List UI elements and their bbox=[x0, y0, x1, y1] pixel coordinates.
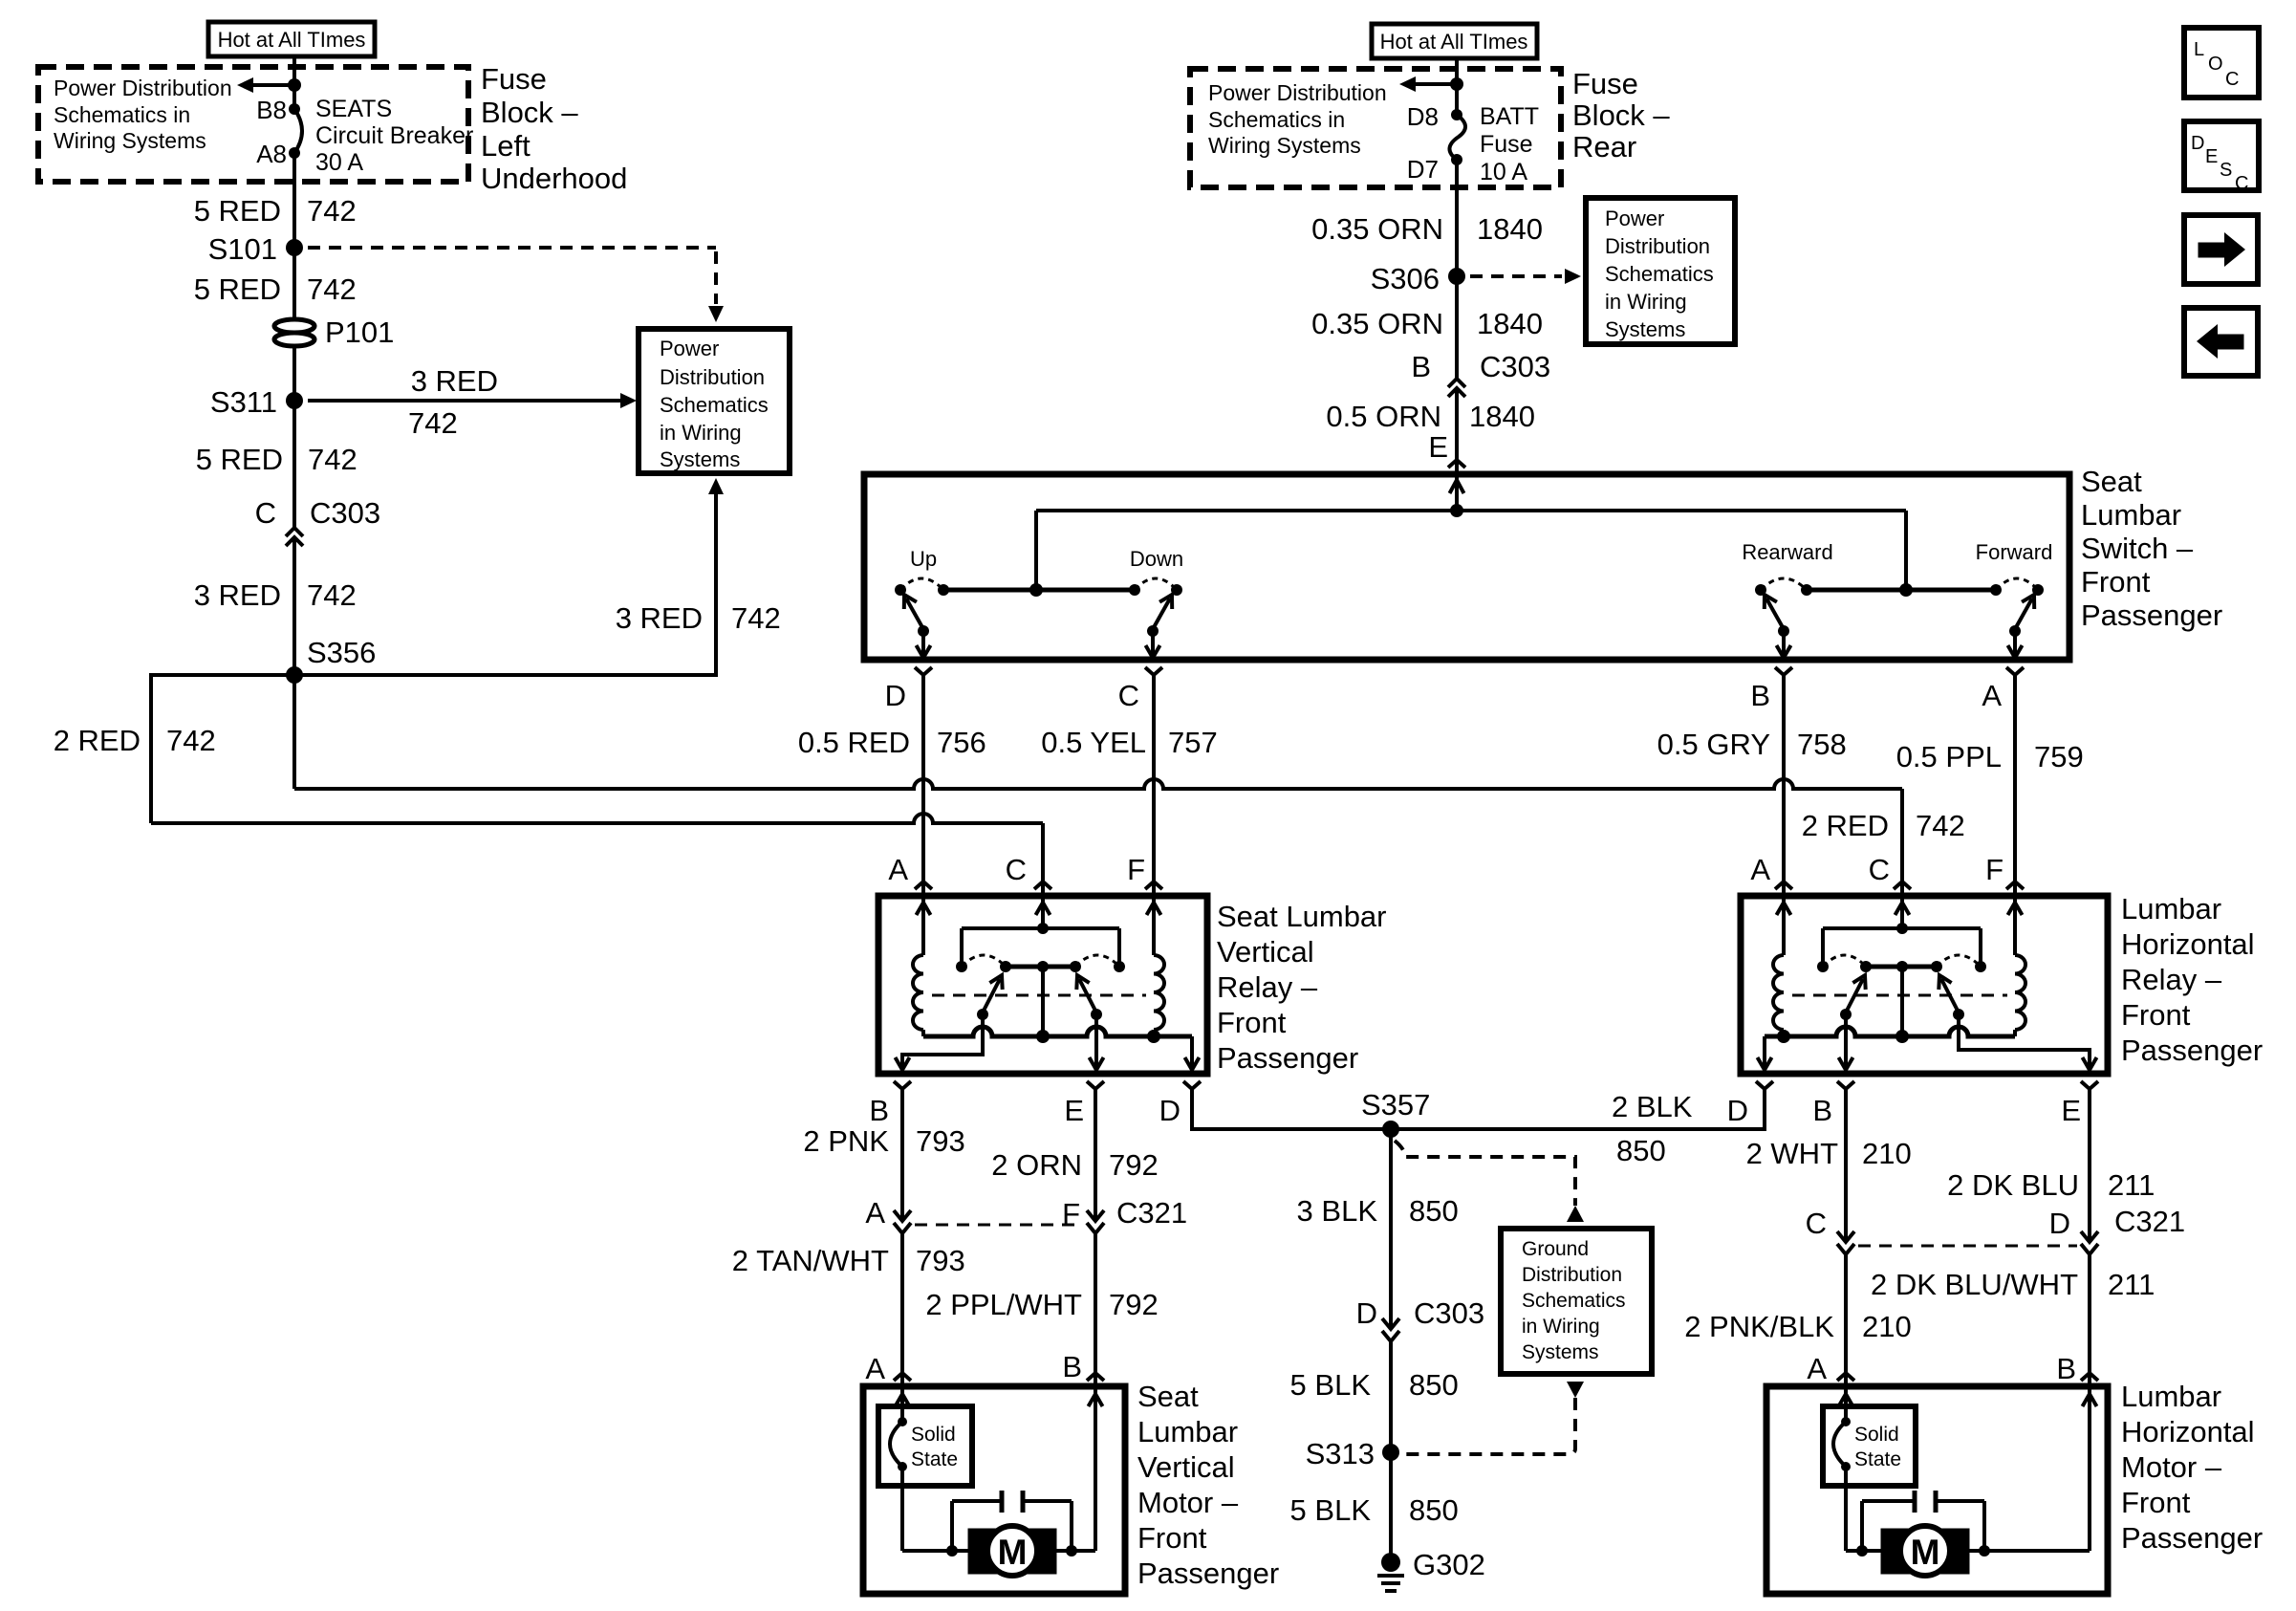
relay pin A (right) bbox=[1775, 882, 1792, 889]
wire 0.5 RED 756 bbox=[921, 675, 925, 881]
dashed reference from S306 to power distribution box bbox=[1470, 274, 1562, 278]
svg-text:742: 742 bbox=[307, 272, 357, 306]
dashed reference S357 to ground distribution box bbox=[1395, 1141, 1575, 1206]
svg-text:5 RED: 5 RED bbox=[194, 194, 281, 228]
svg-text:793: 793 bbox=[916, 1124, 965, 1158]
svg-text:E: E bbox=[1064, 1094, 1084, 1127]
wire 2 WHT 210 (relay B to C321) bbox=[1844, 1089, 1848, 1242]
svg-text:Distribution: Distribution bbox=[1605, 234, 1710, 258]
wire 5 RED 742 (fuse block to S101) bbox=[292, 153, 296, 248]
svg-text:S: S bbox=[2220, 160, 2232, 181]
svg-text:Wiring Systems: Wiring Systems bbox=[1208, 133, 1361, 158]
svg-text:742: 742 bbox=[307, 578, 357, 612]
svg-text:Systems: Systems bbox=[660, 447, 740, 471]
svg-text:742: 742 bbox=[731, 601, 781, 635]
left arrow box bbox=[2184, 308, 2258, 376]
svg-text:Front: Front bbox=[1217, 1006, 1287, 1039]
forward contact and travel arc bbox=[2032, 584, 2044, 596]
svg-text:E: E bbox=[2205, 146, 2218, 167]
wire 0.35 ORN 1840 (fuse to S306) bbox=[1455, 160, 1459, 276]
wire: feed bus to right relay coil C (with hops) bbox=[294, 779, 1902, 789]
svg-text:Passenger: Passenger bbox=[1137, 1557, 1279, 1590]
wire 3 RED 742 (C303 to S356) bbox=[292, 537, 296, 675]
svg-text:5 BLK: 5 BLK bbox=[1290, 1493, 1372, 1527]
relay common feed C bbox=[1041, 896, 1045, 928]
switch pin C bbox=[1145, 667, 1162, 675]
wire: S356 down to feed bus bbox=[292, 675, 296, 789]
svg-text:O: O bbox=[2208, 54, 2223, 75]
svg-text:Forward: Forward bbox=[1976, 540, 2053, 564]
svg-text:Passenger: Passenger bbox=[2081, 599, 2222, 632]
solid state box (right) bbox=[1823, 1406, 1916, 1486]
wire 3 RED 742 (S356 up to power distribution box) bbox=[294, 494, 716, 675]
relay output to pin E (right) bbox=[1959, 1014, 2090, 1071]
circuit breaker SEATS 30 A bbox=[294, 109, 302, 153]
svg-text:2 RED: 2 RED bbox=[1802, 809, 1889, 842]
relay pin C (right) bbox=[1894, 882, 1911, 889]
svg-text:C: C bbox=[1118, 679, 1139, 712]
fuse BATT 10 A bbox=[1449, 115, 1465, 160]
wire 2 DK BLU/WHT 211 (C321 to motor B) bbox=[2088, 1254, 2091, 1373]
svg-text:0.5 RED: 0.5 RED bbox=[798, 726, 910, 759]
svg-text:S311: S311 bbox=[210, 385, 277, 419]
svg-text:E: E bbox=[1428, 430, 1448, 464]
svg-text:2 DK BLU: 2 DK BLU bbox=[1947, 1168, 2079, 1202]
motor M (right) bbox=[1881, 1529, 1914, 1574]
svg-text:C321: C321 bbox=[1116, 1196, 1187, 1230]
svg-text:793: 793 bbox=[916, 1244, 965, 1277]
svg-text:742: 742 bbox=[166, 724, 216, 757]
svg-text:Front: Front bbox=[2121, 1486, 2191, 1519]
svg-text:Wiring Systems: Wiring Systems bbox=[54, 128, 206, 153]
relay armature dashed linkage (right) bbox=[1792, 994, 2007, 997]
down movable contact arm bbox=[1153, 599, 1170, 629]
svg-text:3 RED: 3 RED bbox=[194, 578, 281, 612]
wire: 2 RED bus to left relay coil C (with hop) bbox=[151, 814, 1043, 823]
svg-text:C: C bbox=[1869, 853, 1890, 886]
svg-text:Power: Power bbox=[1605, 207, 1664, 230]
svg-text:210: 210 bbox=[1862, 1310, 1912, 1343]
svg-text:D: D bbox=[1356, 1296, 1377, 1330]
relay output to pin D bbox=[1190, 1036, 1194, 1070]
svg-text:G302: G302 bbox=[1413, 1548, 1485, 1581]
relay pin B bbox=[894, 1081, 911, 1089]
svg-text:Passenger: Passenger bbox=[2121, 1034, 2263, 1067]
svg-text:Front: Front bbox=[2121, 998, 2191, 1032]
svg-text:Power: Power bbox=[660, 337, 719, 360]
svg-text:Switch –: Switch – bbox=[2081, 532, 2194, 565]
svg-text:850: 850 bbox=[1409, 1493, 1459, 1527]
suppression capacitor (right motor) bbox=[1856, 1545, 1868, 1557]
seat lumbar vertical relay box bbox=[878, 896, 1207, 1074]
svg-text:Seat Lumbar: Seat Lumbar bbox=[1217, 900, 1387, 933]
pin D8 bbox=[1451, 109, 1462, 120]
wire 0.5 PPL 759 bbox=[2013, 675, 2017, 881]
wire 5 RED 742 (S311 to C303) bbox=[292, 401, 296, 528]
svg-text:792: 792 bbox=[1109, 1288, 1159, 1321]
svg-text:A: A bbox=[1807, 1352, 1827, 1385]
svg-text:C: C bbox=[1806, 1207, 1827, 1240]
relay armature contacts (right) bbox=[1840, 1009, 1852, 1020]
wire 0.5 ORN 1840 (C303 to switch pin E) bbox=[1455, 388, 1459, 460]
relay movable contact bar (right) bbox=[1866, 965, 1937, 969]
svg-text:2 ORN: 2 ORN bbox=[991, 1148, 1082, 1182]
wire 0.5 YEL 757 bbox=[1152, 675, 1156, 881]
solid state box bbox=[878, 1406, 972, 1486]
relay pin A bbox=[915, 882, 932, 889]
svg-text:5 BLK: 5 BLK bbox=[1290, 1368, 1372, 1402]
wire: hot feed into rear fuse block bbox=[1455, 58, 1459, 115]
svg-text:Fuse: Fuse bbox=[481, 62, 547, 96]
wire 5 BLK 850 (C303 to S313) bbox=[1389, 1341, 1393, 1452]
wire 3 BLK 850 (S357 to C303) bbox=[1389, 1129, 1393, 1329]
svg-text:Lumbar: Lumbar bbox=[1137, 1415, 1238, 1448]
svg-text:Solid: Solid bbox=[1854, 1424, 1899, 1446]
svg-text:C303: C303 bbox=[1414, 1296, 1484, 1330]
splice S311 bbox=[286, 392, 303, 409]
svg-text:Lumbar: Lumbar bbox=[2121, 892, 2221, 925]
svg-text:S356: S356 bbox=[307, 636, 376, 669]
svg-text:E: E bbox=[2061, 1094, 2081, 1127]
motor feed A with solid state protector bbox=[900, 1386, 904, 1422]
splice S313 bbox=[1382, 1444, 1399, 1461]
fuse block left underhood (dashed box) bbox=[38, 67, 468, 182]
svg-text:Lumbar: Lumbar bbox=[2121, 1380, 2221, 1413]
svg-text:C: C bbox=[255, 496, 276, 530]
svg-text:Power Distribution: Power Distribution bbox=[54, 76, 232, 100]
suppression capacitor (left motor) bbox=[946, 1545, 958, 1557]
splice S306 bbox=[1448, 268, 1465, 285]
relay fixed contacts bbox=[956, 961, 967, 972]
svg-text:Horizontal: Horizontal bbox=[2121, 1415, 2255, 1448]
fuse block rear (dashed box) bbox=[1190, 69, 1561, 187]
svg-text:D: D bbox=[1159, 1094, 1180, 1127]
motor brush feed (left) bbox=[900, 1467, 904, 1551]
up movable contact arm bbox=[906, 599, 923, 629]
switch contact row (up/down) bbox=[943, 588, 1135, 593]
svg-text:L: L bbox=[2194, 39, 2204, 60]
motor return B (left) bbox=[1056, 1549, 1095, 1553]
svg-text:Vertical: Vertical bbox=[1217, 935, 1314, 969]
svg-text:Motor –: Motor – bbox=[1137, 1486, 1239, 1519]
svg-text:Schematics: Schematics bbox=[660, 393, 769, 417]
rearward contact and travel arc bbox=[1755, 584, 1766, 596]
svg-text:3 RED: 3 RED bbox=[616, 601, 703, 635]
svg-text:850: 850 bbox=[1409, 1368, 1459, 1402]
svg-text:S313: S313 bbox=[1306, 1437, 1375, 1470]
svg-text:211: 211 bbox=[2108, 1168, 2155, 1202]
relay pin D bbox=[1183, 1081, 1201, 1089]
svg-text:in Wiring: in Wiring bbox=[1605, 290, 1687, 314]
svg-text:Seat: Seat bbox=[2081, 465, 2142, 498]
dashed reference from S101 to power distribution box bbox=[308, 246, 716, 250]
svg-text:Horizontal: Horizontal bbox=[2121, 927, 2255, 961]
lumbar horizontal relay box bbox=[1741, 896, 2108, 1074]
switch pin D bbox=[915, 667, 932, 675]
svg-text:F: F bbox=[1985, 853, 2004, 886]
svg-text:0.5 GRY: 0.5 GRY bbox=[1657, 728, 1770, 761]
solid state element (right) bbox=[1841, 1417, 1851, 1426]
relay movable contact bar bbox=[1006, 965, 1075, 969]
wire 2 BLK 850 (relay D pins to S357) bbox=[1192, 1089, 1765, 1129]
svg-text:Lumbar: Lumbar bbox=[2081, 498, 2181, 532]
svg-text:1840: 1840 bbox=[1469, 400, 1535, 433]
svg-text:0.35 ORN: 0.35 ORN bbox=[1311, 212, 1443, 246]
svg-text:Hot at All TImes: Hot at All TImes bbox=[1380, 30, 1528, 54]
reference box Power Distribution Schematics in Wiring Systems (left) bbox=[639, 329, 790, 473]
seat lumbar vertical motor box bbox=[863, 1386, 1125, 1594]
svg-text:Hot at All TImes: Hot at All TImes bbox=[218, 28, 366, 52]
wire 5 RED 742 (S101 to P101) bbox=[292, 248, 296, 320]
svg-text:2 PNK: 2 PNK bbox=[803, 1124, 889, 1158]
relay bottom bus (right, with hops) bbox=[1765, 1027, 2015, 1036]
wire 2 PNK 793 (relay B to C321) bbox=[900, 1089, 904, 1221]
arrow to power distribution (left) bbox=[252, 83, 294, 87]
relay armature contacts bbox=[977, 1009, 988, 1020]
relay pin C bbox=[1034, 882, 1051, 889]
svg-text:P101: P101 bbox=[325, 316, 394, 349]
svg-text:Rear: Rear bbox=[1572, 130, 1636, 163]
svg-text:0.5 YEL: 0.5 YEL bbox=[1041, 726, 1146, 759]
svg-text:Block –: Block – bbox=[481, 96, 578, 129]
svg-text:C: C bbox=[2225, 69, 2239, 90]
svg-text:850: 850 bbox=[1616, 1134, 1666, 1167]
svg-text:Relay –: Relay – bbox=[1217, 970, 1318, 1004]
ground distribution box bbox=[1501, 1229, 1652, 1374]
wire 3 RED 742 branch from S311 to power distribution box bbox=[308, 399, 621, 403]
svg-text:M: M bbox=[1911, 1533, 1940, 1572]
svg-text:2 TAN/WHT: 2 TAN/WHT bbox=[732, 1244, 889, 1277]
svg-text:A: A bbox=[865, 1352, 885, 1385]
svg-text:Seat: Seat bbox=[1137, 1380, 1199, 1413]
svg-text:A: A bbox=[1982, 679, 2002, 712]
relay coil (right, F winding) bbox=[2013, 896, 2017, 955]
svg-text:10 A: 10 A bbox=[1480, 159, 1527, 185]
svg-text:Fuse: Fuse bbox=[1480, 131, 1533, 158]
switch contact row (rearward/forward) bbox=[1807, 588, 1996, 593]
motor return B (right) bbox=[1969, 1549, 2090, 1553]
svg-text:5 RED: 5 RED bbox=[196, 443, 283, 476]
svg-text:Circuit Breaker: Circuit Breaker bbox=[315, 122, 473, 149]
relay output to pin B (right) bbox=[1844, 1014, 1848, 1070]
motor brush feed (right) bbox=[1844, 1467, 1848, 1551]
svg-text:A8: A8 bbox=[256, 140, 287, 168]
svg-text:0.5 PPL: 0.5 PPL bbox=[1896, 740, 2002, 773]
wire 2 RED 742 (S356 left branch) bbox=[151, 675, 294, 823]
svg-text:210: 210 bbox=[1862, 1137, 1912, 1170]
svg-text:C: C bbox=[1006, 853, 1027, 886]
splice S357 bbox=[1382, 1121, 1399, 1138]
wire (P101 to S311) bbox=[292, 345, 296, 401]
svg-text:C: C bbox=[2235, 173, 2248, 194]
reference box Power Distribution Schematics in Wiring Systems (right) bbox=[1586, 198, 1735, 344]
relay armature dashed linkage bbox=[932, 994, 1146, 997]
pin A8 bbox=[289, 147, 300, 159]
svg-text:Distribution: Distribution bbox=[1522, 1264, 1622, 1286]
relay pin F bbox=[1145, 882, 1162, 889]
svg-text:742: 742 bbox=[307, 194, 357, 228]
label Hot at All Times (right) bbox=[1372, 24, 1537, 58]
svg-text:B: B bbox=[869, 1094, 889, 1127]
svg-text:A: A bbox=[888, 853, 908, 886]
svg-text:S101: S101 bbox=[208, 232, 277, 266]
forward movable contact arm bbox=[2015, 599, 2032, 629]
svg-text:792: 792 bbox=[1109, 1148, 1159, 1182]
svg-text:0.35 ORN: 0.35 ORN bbox=[1311, 307, 1443, 340]
svg-text:B: B bbox=[1062, 1350, 1082, 1383]
relay output to pin D (right) bbox=[1763, 1036, 1766, 1070]
svg-text:Distribution: Distribution bbox=[660, 365, 765, 389]
wire 2 TAN/WHT 793 (C321 to motor A) bbox=[900, 1233, 904, 1373]
svg-text:S306: S306 bbox=[1371, 262, 1440, 295]
splice S356 bbox=[286, 666, 303, 684]
svg-text:D: D bbox=[1727, 1094, 1748, 1127]
LOC box bbox=[2184, 28, 2259, 98]
svg-text:Schematics: Schematics bbox=[1605, 262, 1714, 286]
down contact and travel arc bbox=[1171, 584, 1182, 596]
svg-text:A: A bbox=[865, 1196, 885, 1230]
relay pin D (right) bbox=[1756, 1081, 1773, 1089]
svg-text:D: D bbox=[2191, 133, 2204, 154]
svg-text:Motor –: Motor – bbox=[2121, 1450, 2222, 1484]
svg-text:B: B bbox=[2056, 1352, 2076, 1385]
svg-text:Front: Front bbox=[1137, 1521, 1207, 1555]
svg-text:B: B bbox=[1411, 350, 1431, 383]
wire 5 BLK 850 (S313 to G302) bbox=[1389, 1452, 1393, 1562]
solid state element bbox=[898, 1417, 907, 1426]
svg-text:Relay –: Relay – bbox=[2121, 963, 2222, 996]
svg-text:Power Distribution: Power Distribution bbox=[1208, 80, 1387, 105]
motor M (left) bbox=[968, 1529, 1001, 1574]
relay coil (up winding) bbox=[921, 896, 925, 955]
svg-text:1840: 1840 bbox=[1477, 212, 1543, 246]
svg-text:Fuse: Fuse bbox=[1572, 67, 1638, 100]
svg-text:Passenger: Passenger bbox=[1217, 1041, 1358, 1075]
relay pin E (right) bbox=[2081, 1081, 2098, 1089]
relay output to pin E bbox=[1094, 1014, 1098, 1070]
svg-text:BATT: BATT bbox=[1480, 103, 1539, 130]
svg-text:in Wiring: in Wiring bbox=[1522, 1316, 1600, 1338]
svg-text:D8: D8 bbox=[1407, 102, 1439, 131]
wire: hot feed into fuse block bbox=[292, 56, 296, 109]
relay pin F (right) bbox=[2006, 882, 2024, 889]
ground G302 bbox=[1381, 1553, 1400, 1572]
svg-text:30 A: 30 A bbox=[315, 149, 363, 176]
arrow to power distribution (right) bbox=[1415, 82, 1457, 86]
label Hot at All Times (left) bbox=[208, 22, 375, 56]
relay fixed contacts (right) bbox=[1817, 961, 1829, 972]
svg-text:B8: B8 bbox=[256, 96, 287, 124]
wire: switch internal feed bus bbox=[1036, 509, 1906, 512]
svg-text:Passenger: Passenger bbox=[2121, 1521, 2263, 1555]
svg-text:D: D bbox=[885, 679, 906, 712]
svg-text:1840: 1840 bbox=[1477, 307, 1543, 340]
svg-text:State: State bbox=[1854, 1448, 1901, 1470]
splice S101 bbox=[286, 239, 303, 256]
svg-text:742: 742 bbox=[308, 443, 357, 476]
svg-text:in Wiring: in Wiring bbox=[660, 421, 742, 445]
relay common feed C (right) bbox=[1900, 896, 1904, 928]
pin D7 bbox=[1451, 154, 1462, 165]
svg-text:Front: Front bbox=[2081, 565, 2151, 599]
svg-text:Block –: Block – bbox=[1572, 98, 1670, 132]
svg-text:Schematics in: Schematics in bbox=[54, 102, 190, 127]
relay bottom bus (with hops) bbox=[923, 1027, 1192, 1036]
grommet P101 bbox=[274, 319, 314, 333]
wire 2 PPL/WHT 792 (C321 to motor B) bbox=[1094, 1233, 1097, 1373]
svg-text:3 RED: 3 RED bbox=[411, 364, 498, 398]
svg-text:3 BLK: 3 BLK bbox=[1297, 1194, 1378, 1228]
lumbar horizontal motor box bbox=[1766, 1386, 2108, 1594]
right arrow box bbox=[2184, 215, 2258, 284]
svg-text:211: 211 bbox=[2108, 1268, 2155, 1301]
wire 0.5 GRY 758 bbox=[1782, 675, 1786, 881]
svg-text:A: A bbox=[1750, 853, 1770, 886]
svg-text:742: 742 bbox=[1916, 809, 1965, 842]
svg-text:SEATS: SEATS bbox=[315, 96, 392, 122]
svg-text:Solid: Solid bbox=[911, 1424, 956, 1446]
relay pin E bbox=[1087, 1081, 1104, 1089]
svg-text:742: 742 bbox=[408, 406, 458, 440]
svg-text:850: 850 bbox=[1409, 1194, 1459, 1228]
svg-text:Down: Down bbox=[1130, 547, 1183, 571]
dashed reference ground distribution box to S313 bbox=[1567, 1382, 1584, 1398]
svg-text:2 PPL/WHT: 2 PPL/WHT bbox=[925, 1288, 1082, 1321]
svg-text:Underhood: Underhood bbox=[481, 162, 627, 195]
svg-text:Schematics in: Schematics in bbox=[1208, 107, 1345, 132]
svg-text:2 DK BLU/WHT: 2 DK BLU/WHT bbox=[1871, 1268, 2078, 1301]
svg-text:B: B bbox=[1812, 1094, 1832, 1127]
svg-text:757: 757 bbox=[1168, 726, 1218, 759]
svg-text:2 WHT: 2 WHT bbox=[1746, 1137, 1839, 1170]
DESC box bbox=[2184, 121, 2259, 190]
svg-text:C303: C303 bbox=[1480, 350, 1550, 383]
motor feed A with solid state protector (right) bbox=[1844, 1386, 1848, 1422]
relay coil (down winding) bbox=[1152, 896, 1156, 955]
switch pin B bbox=[1775, 667, 1792, 675]
dashed connector line C321 (left) bbox=[915, 1224, 1083, 1227]
up contact and travel arc bbox=[895, 584, 906, 596]
svg-text:759: 759 bbox=[2034, 740, 2084, 773]
svg-text:758: 758 bbox=[1797, 728, 1847, 761]
svg-text:S357: S357 bbox=[1361, 1088, 1430, 1121]
switch pin A bbox=[2006, 667, 2024, 675]
svg-text:State: State bbox=[911, 1448, 958, 1470]
svg-text:M: M bbox=[998, 1533, 1028, 1572]
svg-text:C303: C303 bbox=[310, 496, 380, 530]
svg-text:Ground: Ground bbox=[1522, 1238, 1589, 1260]
wire 2 PNK/BLK 210 (C321 to motor A) bbox=[1844, 1254, 1848, 1373]
svg-text:Vertical: Vertical bbox=[1137, 1450, 1235, 1484]
wire: switch feed entry E bbox=[1455, 474, 1459, 511]
svg-text:2 BLK: 2 BLK bbox=[1612, 1090, 1693, 1123]
rearward movable contact arm bbox=[1766, 599, 1784, 629]
svg-text:2 RED: 2 RED bbox=[54, 724, 141, 757]
svg-text:F: F bbox=[1127, 853, 1145, 886]
wire 0.35 ORN 1840 (S306 to C303) bbox=[1455, 276, 1459, 379]
relay coil (right, A winding) bbox=[1782, 896, 1786, 955]
svg-text:D: D bbox=[2049, 1207, 2070, 1240]
wire 2 ORN 792 (relay E to C321) bbox=[1094, 1089, 1097, 1221]
svg-text:Left: Left bbox=[481, 129, 531, 163]
svg-text:Rearward: Rearward bbox=[1742, 540, 1832, 564]
seat lumbar switch box bbox=[864, 474, 2069, 660]
svg-text:0.5 ORN: 0.5 ORN bbox=[1326, 400, 1441, 433]
wire 2 DK BLU 211 (relay E to C321) bbox=[2088, 1089, 2091, 1242]
relay output to pin B bbox=[902, 1014, 983, 1071]
relay pin B (right) bbox=[1837, 1081, 1854, 1089]
svg-text:Schematics: Schematics bbox=[1522, 1290, 1626, 1312]
